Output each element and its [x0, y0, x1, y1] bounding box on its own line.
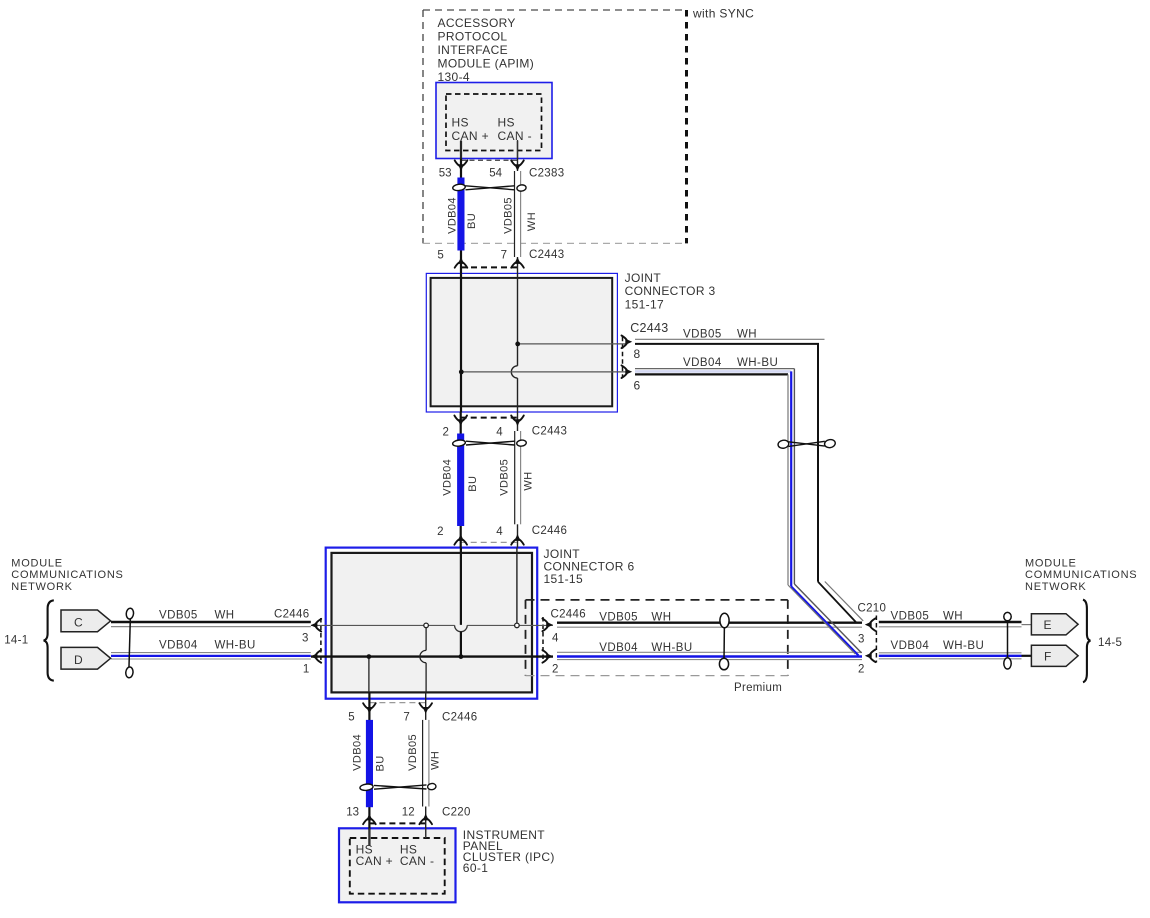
- Premium dashed box: [526, 600, 788, 676]
- arrow C2443 pin 8 (right): [622, 336, 633, 349]
- junction node on VDB05 at pin8 branch: [515, 342, 520, 347]
- svg-text:54: 54: [489, 168, 502, 180]
- svg-text:1: 1: [303, 663, 309, 675]
- JC3 internal horizontal to pin 8: [518, 343, 627, 345]
- APIM inner dashed box: [446, 94, 542, 151]
- joint connector 6 internal bottom wire VDB04: [311, 655, 553, 657]
- IPC inner dashed box: [350, 838, 445, 894]
- dashed in-line rect JC3-JC6: [461, 418, 518, 543]
- svg-text:VDB05: VDB05: [683, 329, 722, 341]
- svg-text:C2446: C2446: [532, 525, 567, 537]
- arrow C2383 pin 53 (down): [455, 160, 468, 171]
- connector tag E: [1031, 614, 1078, 635]
- svg-text:2: 2: [442, 427, 448, 439]
- svg-text:130-4: 130-4: [438, 70, 470, 84]
- dashed in-line rect APIM-JC3: [461, 160, 518, 267]
- junction dot pin5 branch: [367, 654, 372, 659]
- MCN left title: [11, 557, 123, 593]
- svg-text:4: 4: [552, 633, 559, 645]
- svg-text:WH-BU: WH-BU: [943, 640, 984, 652]
- wire VDB05 WH from JC3 pin 8: horizontal, corner, vertical: [635, 338, 825, 340]
- joint connector 3 internal wire VDB05 vertical with hop gap: [517, 273, 519, 365]
- wire VDB04 WH-BU from JC3 pin 6: horizontal, corner, vertical: [635, 368, 794, 370]
- twisted pair symbol JC6-IPC: [360, 783, 437, 791]
- svg-text:C2443: C2443: [630, 321, 668, 335]
- arrow C220 pin 13 (up): [363, 814, 376, 825]
- connector C210 dashed boundary: [875, 616, 877, 663]
- svg-text:C: C: [74, 616, 83, 630]
- twisted pair symbol JC3-JC6: [452, 439, 526, 447]
- svg-text:5: 5: [437, 250, 443, 262]
- svg-text:CAN -: CAN -: [400, 854, 434, 868]
- connector C2446 dashed boundary left of JC6: [320, 618, 322, 664]
- svg-text:VDB04: VDB04: [159, 640, 198, 652]
- svg-text:VDB04: VDB04: [442, 459, 454, 496]
- svg-text:C220: C220: [442, 807, 471, 819]
- wire VDB04 WH-BU horizontal C210 to F tag: [879, 652, 1022, 654]
- wire VDB04 BU band APIM-JC3: [457, 178, 464, 251]
- joint connector 3 internal wire VDB04 vertical: [460, 273, 462, 412]
- arrow C2446 pin 5 (down): [363, 703, 376, 714]
- svg-text:2: 2: [858, 663, 864, 675]
- svg-text:2: 2: [552, 664, 558, 676]
- hop arc on VDB05 vertical over pin6 wire: [511, 366, 517, 378]
- arrow C2383 pin 54 (down): [511, 160, 524, 171]
- svg-text:HS: HS: [452, 116, 469, 130]
- wire VDB04 WH-BU horizontal JC6 right to C210: [557, 651, 862, 653]
- JC6 internal vertical pin5 from bottom wire: [368, 657, 370, 693]
- JC6 internal VDB05 vertical from pin4 to top wire circle: [516, 548, 518, 624]
- svg-text:NETWORK: NETWORK: [1025, 581, 1086, 593]
- joint connector 6 internal top wire VDB05 with hop gap: [311, 624, 455, 626]
- svg-text:VDB05: VDB05: [499, 459, 511, 496]
- arrow C2443 pin 7 (up): [511, 257, 524, 268]
- twisted pair symbol on vertical pair right of JC3: [777, 439, 836, 449]
- junction node on VDB04 at pin6 branch: [459, 370, 464, 375]
- wire VDB05 WH horizontal C210 to E tag: [879, 621, 1022, 623]
- svg-text:VDB04: VDB04: [352, 734, 364, 771]
- svg-text:3: 3: [858, 634, 864, 646]
- JC6 title: [544, 547, 635, 586]
- svg-text:60-1: 60-1: [463, 861, 488, 875]
- wire VDB05 WH band JC3-JC6: [515, 431, 521, 524]
- svg-text:VDB05: VDB05: [891, 611, 930, 623]
- svg-text:BU: BU: [466, 213, 478, 229]
- connector tag F: [1031, 645, 1078, 666]
- wire VDB05 WH vertical APIM to JC3 (net line): [517, 141, 519, 273]
- wire VDB05 WH horizontal from C tag: [111, 621, 311, 623]
- svg-text:C2446: C2446: [551, 609, 586, 621]
- svg-text:with SYNC: with SYNC: [692, 7, 754, 21]
- APIM title: [438, 16, 535, 84]
- svg-text:3: 3: [302, 633, 308, 645]
- connector tag D: [61, 647, 111, 669]
- arrow C2446 right pin 4 (right): [542, 619, 553, 632]
- JC3 title: [625, 271, 716, 311]
- svg-text:ACCESSORY: ACCESSORY: [438, 16, 516, 30]
- APIM pin HS CAN -: [498, 116, 532, 143]
- IPC pin HS CAN +: [356, 843, 393, 868]
- joint connector 6 box: [326, 548, 538, 699]
- svg-text:5: 5: [348, 712, 354, 724]
- svg-text:WH: WH: [429, 751, 441, 770]
- svg-text:VDB04: VDB04: [683, 357, 722, 369]
- wire VDB04 BU vertical JC6 to IPC (net line): [368, 692, 370, 845]
- svg-text:WH: WH: [523, 471, 535, 490]
- svg-text:F: F: [1044, 649, 1052, 663]
- hop arc on top wire over VDB04 vertical: [455, 625, 468, 631]
- joint connector 3 box: [426, 273, 617, 412]
- open junction circle pin4 branch: [515, 623, 520, 628]
- junction dot pin2 branch: [459, 654, 464, 659]
- wire VDB04 WH-BU diagonal to C210 pin 2: [794, 584, 861, 653]
- wire VDB04 BU band JC3-JC6: [457, 434, 464, 527]
- open junction circle pin7 branch: [424, 623, 429, 628]
- IPC internal wire stubs: [368, 828, 370, 846]
- svg-text:PROTOCOL: PROTOCOL: [438, 30, 508, 44]
- svg-text:53: 53: [439, 168, 452, 180]
- svg-text:14-1: 14-1: [4, 635, 28, 647]
- twisted pair symbol E/F side: [1004, 612, 1011, 669]
- svg-text:WH-BU: WH-BU: [737, 357, 778, 369]
- arrow C210 pin 3 (left): [865, 618, 876, 631]
- svg-text:JOINT: JOINT: [625, 271, 662, 285]
- wire VDB04 BU vertical JC3 to JC6 (net line): [460, 412, 462, 548]
- IPC title: [463, 828, 555, 875]
- svg-text:C2443: C2443: [529, 249, 564, 261]
- svg-text:4: 4: [496, 526, 503, 538]
- arrow C2443 pin 2 (down): [454, 416, 467, 427]
- arrow C2443 pin 4 (down): [511, 416, 524, 427]
- svg-text:4: 4: [496, 427, 503, 439]
- svg-text:VDB04: VDB04: [599, 642, 638, 654]
- svg-text:C2443: C2443: [532, 426, 567, 438]
- svg-text:MODULE: MODULE: [11, 557, 63, 569]
- svg-text:COMMUNICATIONS: COMMUNICATIONS: [1025, 569, 1137, 581]
- svg-text:CONNECTOR 3: CONNECTOR 3: [625, 284, 716, 298]
- svg-text:VDB05: VDB05: [599, 611, 638, 623]
- svg-text:NETWORK: NETWORK: [11, 581, 72, 593]
- svg-text:WH: WH: [526, 212, 538, 231]
- arrow C2446 pin 3 (left): [311, 619, 322, 632]
- svg-text:WH: WH: [943, 611, 963, 623]
- arrow C2443 pin 5 (up): [455, 257, 468, 268]
- wire VDB04 BU vertical APIM to JC3 (net line): [460, 141, 462, 273]
- module APIM box: [436, 83, 552, 159]
- wire VDB05 WH diagonal to C210 pin 3: [818, 582, 857, 623]
- IPC pin HS CAN -: [400, 843, 434, 868]
- hop arc on pin7 vertical over bottom wire: [420, 650, 426, 662]
- MCN right title: [1025, 557, 1137, 593]
- arrow C2446 pin 4 (up): [511, 534, 524, 545]
- connector tag C: [61, 610, 111, 632]
- dashed in-line rect JC6-IPC: [369, 703, 425, 824]
- svg-text:12: 12: [402, 807, 415, 819]
- svg-text:151-17: 151-17: [625, 297, 664, 311]
- JC6 internal VDB04 vertical from pin2 to bottom wire: [460, 548, 462, 625]
- svg-text:MODULE (APIM): MODULE (APIM): [438, 57, 535, 71]
- wire VDB05 WH vertical JC3 to JC6 (net line): [517, 412, 519, 548]
- twisted pair symbol APIM-JC3: [452, 184, 526, 192]
- svg-text:INTERFACE: INTERFACE: [438, 43, 509, 57]
- svg-text:13: 13: [346, 807, 359, 819]
- arrow C2443 pin 6 (right): [622, 365, 633, 378]
- svg-text:CAN -: CAN -: [498, 129, 532, 143]
- arrow C2446 pin 1 (left): [311, 650, 322, 663]
- svg-text:VDB04: VDB04: [447, 197, 459, 234]
- svg-text:8: 8: [634, 347, 641, 361]
- brace right 14-5: [1083, 600, 1090, 683]
- svg-text:C2383: C2383: [529, 168, 564, 180]
- brace left 14-1: [44, 600, 54, 680]
- svg-text:C2446: C2446: [274, 609, 309, 621]
- svg-text:C2446: C2446: [442, 712, 477, 724]
- svg-text:VDB05: VDB05: [503, 197, 515, 234]
- svg-text:BU: BU: [467, 476, 479, 492]
- svg-text:VDB04: VDB04: [891, 640, 930, 652]
- wire VDB05 WH band APIM-JC3: [515, 171, 521, 257]
- connector C2446 dashed boundary right of JC6: [542, 617, 544, 663]
- svg-text:VDB05: VDB05: [159, 610, 198, 622]
- svg-text:7: 7: [501, 250, 507, 262]
- wire VDB04 WH-BU horizontal from D tag: [111, 652, 311, 654]
- wire VDB04 BU band JC6-IPC: [366, 720, 373, 807]
- JC6 internal vertical pin7 with hop gap: [425, 628, 427, 651]
- arrow C210 pin 2 (left): [865, 650, 876, 663]
- svg-text:6: 6: [634, 379, 641, 393]
- svg-text:C210: C210: [858, 602, 887, 614]
- svg-text:COMMUNICATIONS: COMMUNICATIONS: [11, 569, 123, 581]
- svg-text:14-5: 14-5: [1098, 637, 1122, 649]
- module IPC box: [339, 828, 456, 902]
- APIM pin HS CAN +: [452, 116, 489, 143]
- arrow C2446 right pin 2 (right): [542, 650, 553, 663]
- arrow C2446 pin 7 (down): [419, 703, 432, 714]
- twisted pair symbol C/D side: [125, 608, 134, 678]
- svg-text:WH-BU: WH-BU: [651, 642, 692, 654]
- with SYNC dashed box: [423, 10, 687, 243]
- svg-text:VDB05: VDB05: [407, 734, 419, 771]
- twisted pair symbol Premium zone: [719, 613, 729, 670]
- APIM internal wire stubs to HS CAN pins: [460, 140, 462, 159]
- arrow C220 pin 12 (up): [419, 814, 432, 825]
- wire VDB05 WH horizontal JC6 right to C210: [557, 622, 862, 624]
- svg-text:CAN +: CAN +: [356, 854, 393, 868]
- svg-text:WH: WH: [215, 610, 235, 622]
- svg-text:D: D: [74, 653, 83, 667]
- svg-text:7: 7: [403, 712, 409, 724]
- svg-text:151-15: 151-15: [544, 572, 583, 586]
- svg-text:E: E: [1044, 618, 1052, 632]
- svg-text:WH: WH: [737, 329, 757, 341]
- arrow C2446 pin 2 (up): [454, 534, 467, 545]
- svg-text:HS: HS: [498, 116, 515, 130]
- svg-text:WH-BU: WH-BU: [215, 640, 256, 652]
- svg-text:WH: WH: [651, 611, 671, 623]
- svg-text:BU: BU: [375, 755, 387, 771]
- svg-text:2: 2: [437, 526, 443, 538]
- wire VDB05 WH vertical JC6 to IPC (net line): [425, 692, 427, 838]
- wire VDB05 WH band JC6-IPC: [423, 720, 429, 807]
- svg-text:Premium: Premium: [734, 682, 782, 694]
- connector C2443 dashed boundary right of JC3: [622, 337, 624, 378]
- svg-text:MODULE: MODULE: [1025, 557, 1077, 569]
- JC3 internal horizontal to pin 6: [461, 371, 627, 373]
- svg-text:CAN +: CAN +: [452, 129, 489, 143]
